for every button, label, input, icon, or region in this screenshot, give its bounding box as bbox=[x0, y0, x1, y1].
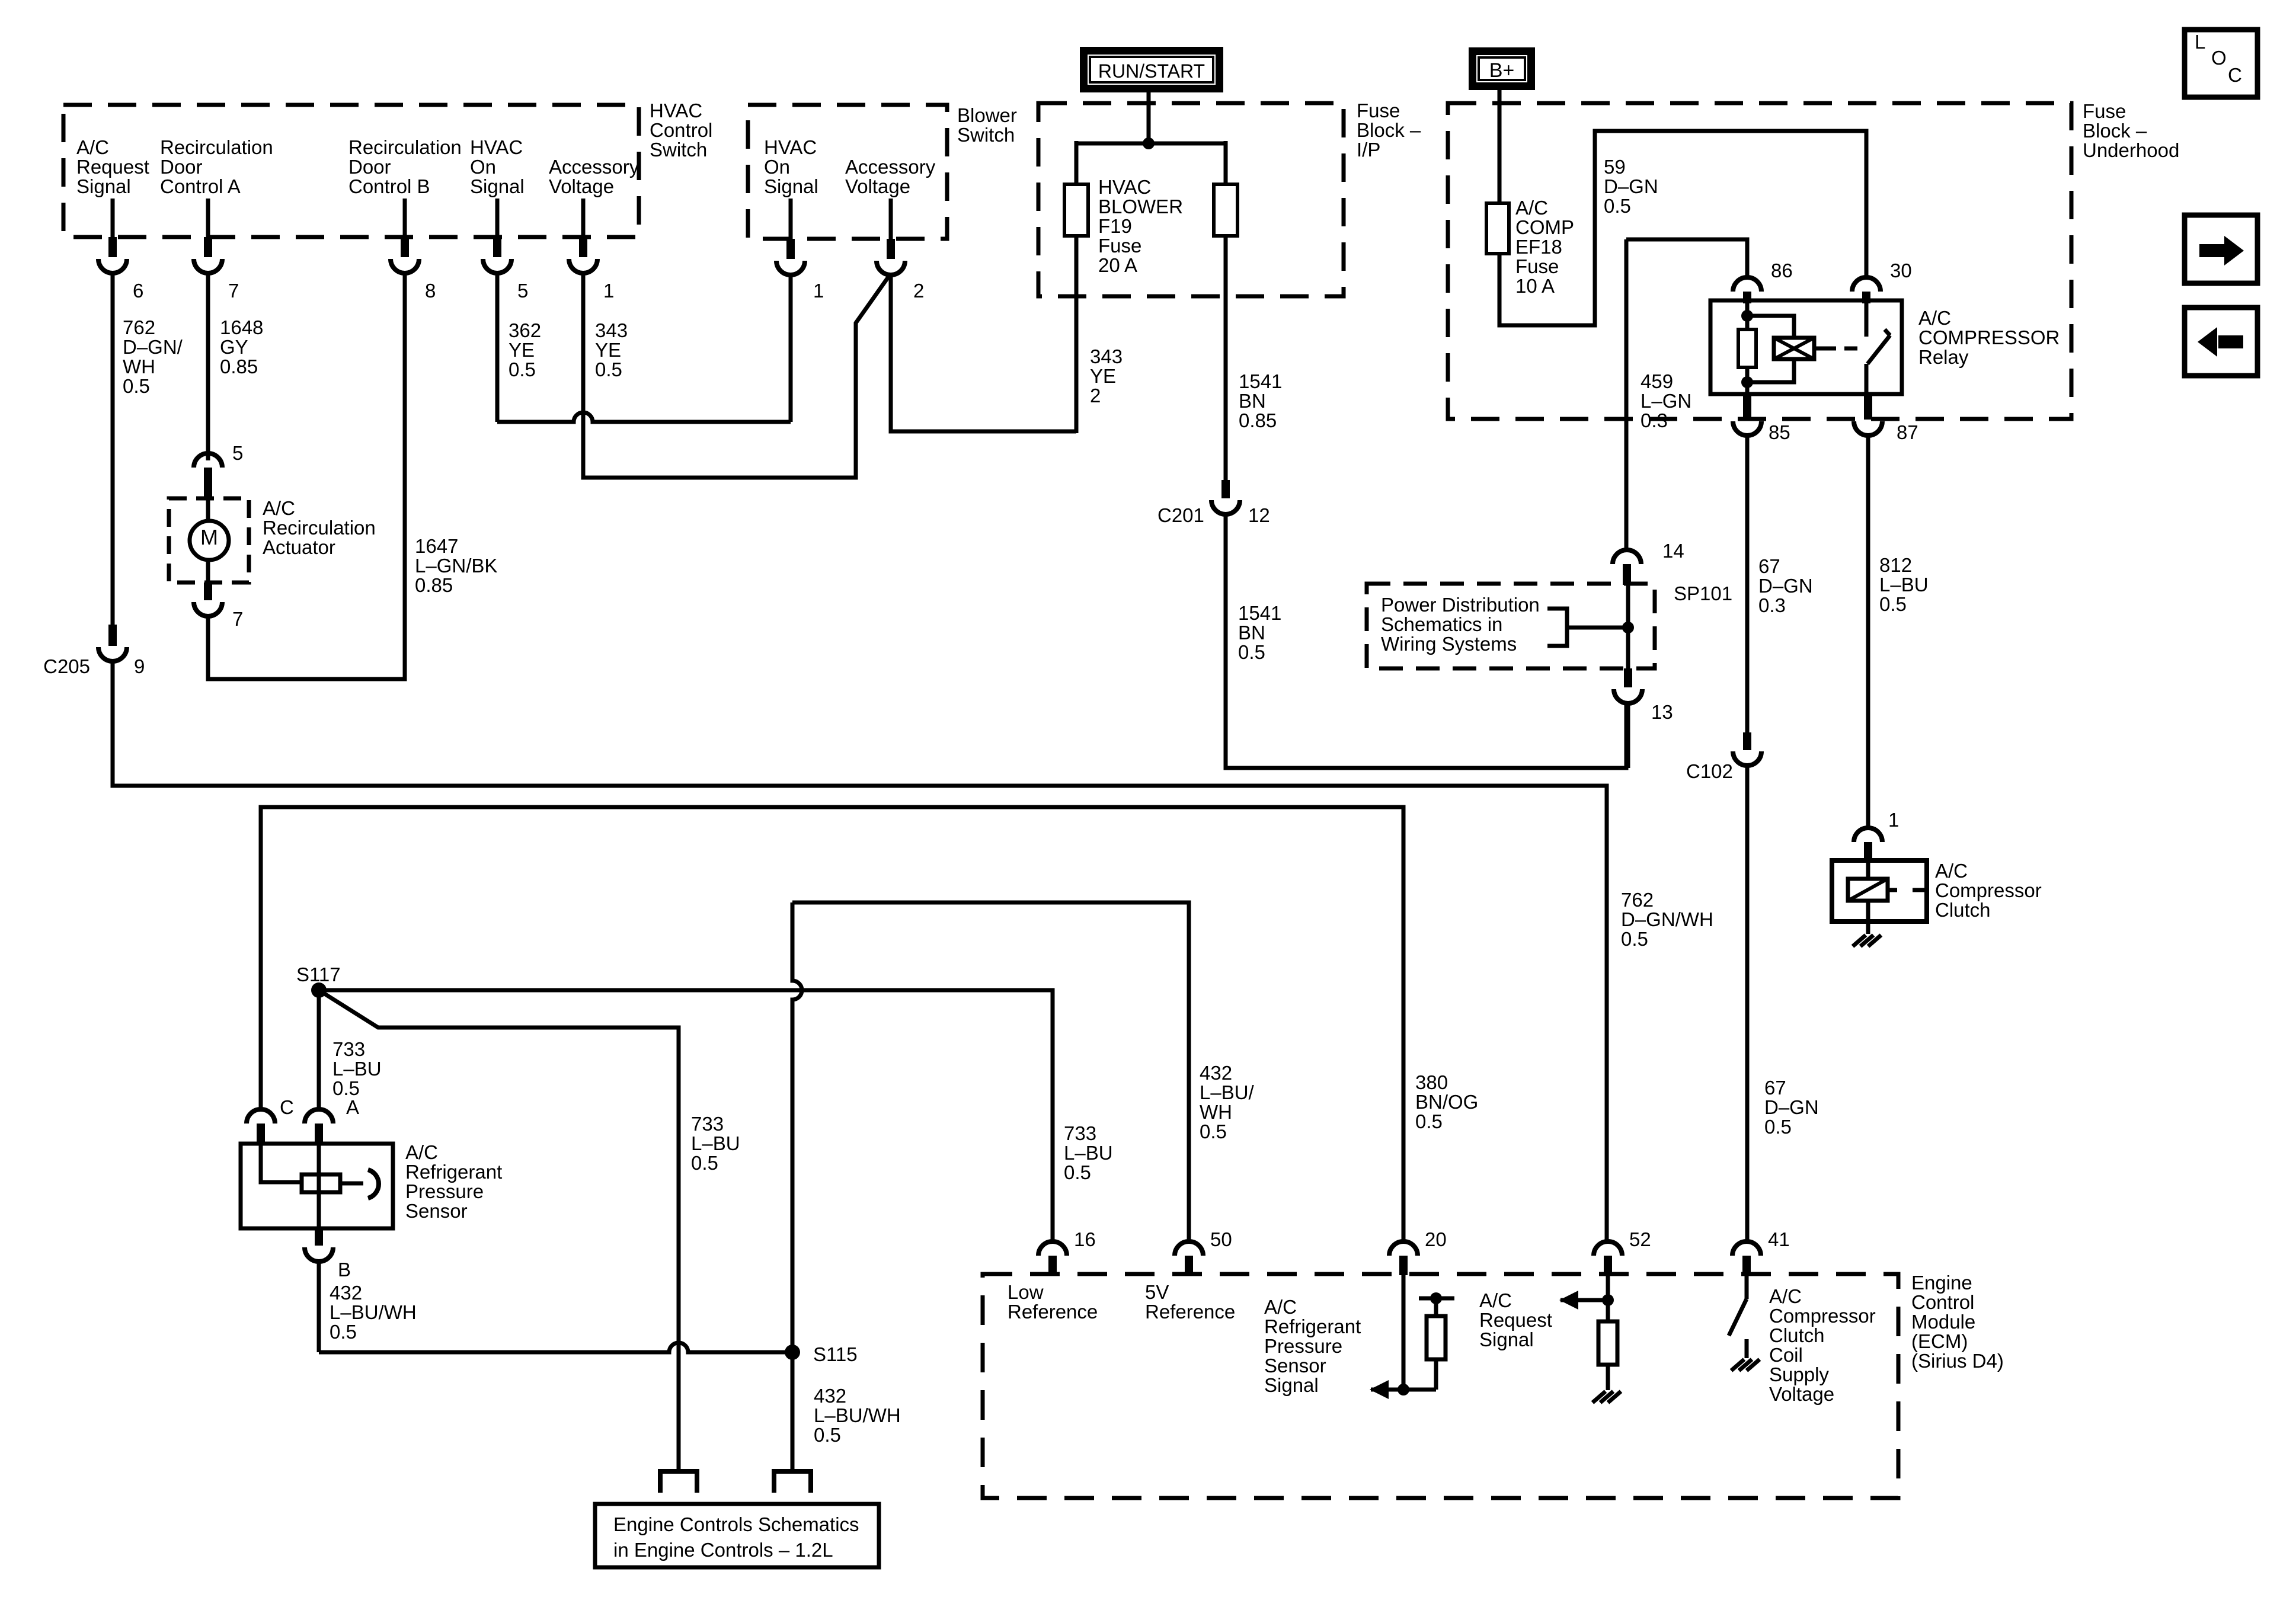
svg-text:Low: Low bbox=[1008, 1281, 1044, 1303]
svg-text:Sensor: Sensor bbox=[1264, 1355, 1326, 1377]
svg-text:Engine Controls Schematics: Engine Controls Schematics bbox=[613, 1513, 859, 1535]
svg-text:WH: WH bbox=[123, 356, 155, 377]
svg-text:L–GN/BK: L–GN/BK bbox=[415, 555, 497, 577]
svg-text:52: 52 bbox=[1629, 1228, 1651, 1250]
svg-text:Schematics in: Schematics in bbox=[1381, 613, 1502, 635]
svg-text:2: 2 bbox=[913, 280, 924, 302]
svg-text:A/C: A/C bbox=[1264, 1296, 1297, 1318]
svg-text:Sensor: Sensor bbox=[405, 1200, 468, 1222]
svg-text:L: L bbox=[2195, 31, 2205, 53]
svg-text:O: O bbox=[2211, 47, 2227, 69]
svg-text:59: 59 bbox=[1604, 156, 1626, 178]
svg-text:762: 762 bbox=[123, 316, 155, 338]
svg-text:Request: Request bbox=[1479, 1309, 1552, 1331]
svg-text:Reference: Reference bbox=[1145, 1301, 1235, 1323]
svg-text:C201: C201 bbox=[1157, 504, 1204, 526]
svg-text:362: 362 bbox=[509, 319, 541, 341]
svg-text:Clutch: Clutch bbox=[1769, 1324, 1825, 1346]
svg-text:Block –: Block – bbox=[2083, 120, 2147, 142]
svg-text:Voltage: Voltage bbox=[549, 175, 614, 197]
svg-text:0.5: 0.5 bbox=[1064, 1161, 1091, 1183]
svg-text:On: On bbox=[470, 156, 496, 178]
svg-text:Power Distribution: Power Distribution bbox=[1381, 594, 1540, 616]
svg-text:1647: 1647 bbox=[415, 535, 458, 557]
svg-text:Fuse: Fuse bbox=[1098, 235, 1141, 257]
svg-text:85: 85 bbox=[1769, 421, 1790, 443]
svg-text:0.3: 0.3 bbox=[1641, 409, 1668, 431]
svg-text:67: 67 bbox=[1758, 555, 1780, 577]
svg-text:6: 6 bbox=[133, 280, 143, 302]
svg-text:12: 12 bbox=[1248, 504, 1270, 526]
svg-text:D–GN/: D–GN/ bbox=[123, 336, 183, 358]
svg-text:A/C: A/C bbox=[263, 497, 295, 519]
svg-text:1648: 1648 bbox=[220, 316, 263, 338]
svg-text:A/C: A/C bbox=[405, 1141, 438, 1163]
svg-text:C: C bbox=[280, 1096, 294, 1118]
svg-text:S115: S115 bbox=[813, 1343, 858, 1365]
svg-text:20 A: 20 A bbox=[1098, 254, 1137, 276]
svg-text:Refrigerant: Refrigerant bbox=[1264, 1315, 1361, 1337]
svg-text:2: 2 bbox=[1090, 385, 1101, 406]
svg-text:Actuator: Actuator bbox=[263, 536, 335, 558]
svg-text:in Engine Controls – 1.2L: in Engine Controls – 1.2L bbox=[613, 1539, 833, 1561]
svg-text:RUN/START: RUN/START bbox=[1098, 60, 1205, 82]
svg-text:B+: B+ bbox=[1489, 59, 1515, 82]
svg-text:YE: YE bbox=[509, 339, 535, 361]
svg-text:A/C: A/C bbox=[1935, 860, 1968, 882]
svg-text:50: 50 bbox=[1210, 1228, 1232, 1250]
svg-text:COMPRESSOR: COMPRESSOR bbox=[1918, 327, 2060, 348]
svg-text:Request: Request bbox=[76, 156, 149, 178]
svg-text:432: 432 bbox=[814, 1385, 846, 1407]
svg-text:A/C: A/C bbox=[1479, 1289, 1512, 1311]
svg-text:459: 459 bbox=[1641, 370, 1673, 392]
svg-text:1: 1 bbox=[813, 280, 824, 302]
svg-text:1: 1 bbox=[1888, 809, 1899, 831]
svg-text:Control A: Control A bbox=[160, 175, 241, 197]
svg-text:5V: 5V bbox=[1145, 1281, 1169, 1303]
svg-text:9: 9 bbox=[134, 655, 145, 677]
svg-text:Clutch: Clutch bbox=[1935, 899, 1991, 921]
svg-text:A: A bbox=[346, 1096, 359, 1118]
svg-text:Door: Door bbox=[348, 156, 391, 178]
svg-text:Module: Module bbox=[1911, 1311, 1975, 1333]
svg-text:Compressor: Compressor bbox=[1769, 1305, 1876, 1327]
svg-text:Control: Control bbox=[1911, 1291, 1974, 1313]
svg-text:A/C: A/C bbox=[1769, 1285, 1802, 1307]
svg-text:0.5: 0.5 bbox=[595, 359, 622, 380]
svg-text:1541: 1541 bbox=[1239, 370, 1282, 392]
svg-text:0.3: 0.3 bbox=[1758, 594, 1786, 616]
svg-text:Compressor: Compressor bbox=[1935, 879, 2042, 901]
svg-text:Recirculation: Recirculation bbox=[348, 136, 462, 158]
svg-text:WH: WH bbox=[1200, 1101, 1232, 1123]
svg-text:86: 86 bbox=[1771, 260, 1793, 281]
svg-text:41: 41 bbox=[1768, 1228, 1790, 1250]
svg-text:343: 343 bbox=[595, 319, 628, 341]
svg-text:14: 14 bbox=[1662, 540, 1684, 562]
svg-text:C102: C102 bbox=[1686, 760, 1733, 782]
svg-text:BN: BN bbox=[1239, 390, 1266, 412]
svg-text:HVAC: HVAC bbox=[764, 136, 817, 158]
svg-text:A/C: A/C bbox=[1515, 197, 1548, 219]
svg-text:A/C: A/C bbox=[1918, 307, 1951, 329]
svg-text:On: On bbox=[764, 156, 790, 178]
svg-text:BLOWER: BLOWER bbox=[1098, 196, 1183, 217]
svg-text:0.5: 0.5 bbox=[123, 375, 150, 397]
svg-text:COMP: COMP bbox=[1515, 216, 1574, 238]
svg-text:C205: C205 bbox=[43, 655, 90, 677]
svg-text:30: 30 bbox=[1890, 260, 1912, 281]
svg-text:7: 7 bbox=[232, 608, 243, 630]
svg-text:M: M bbox=[200, 525, 218, 549]
svg-text:(ECM): (ECM) bbox=[1911, 1330, 1968, 1352]
svg-text:HVAC: HVAC bbox=[1098, 176, 1151, 198]
svg-text:GY: GY bbox=[220, 336, 248, 358]
svg-text:Supply: Supply bbox=[1769, 1363, 1829, 1385]
svg-text:Blower: Blower bbox=[957, 104, 1017, 126]
svg-text:L–BU/WH: L–BU/WH bbox=[814, 1404, 901, 1426]
svg-text:Refrigerant: Refrigerant bbox=[405, 1161, 502, 1183]
svg-text:5: 5 bbox=[232, 442, 243, 464]
svg-text:L–GN: L–GN bbox=[1641, 390, 1691, 412]
svg-text:0.5: 0.5 bbox=[330, 1321, 357, 1343]
svg-text:HVAC: HVAC bbox=[470, 136, 523, 158]
svg-text:0.85: 0.85 bbox=[1239, 409, 1277, 431]
svg-text:812: 812 bbox=[1879, 554, 1912, 576]
svg-text:Switch: Switch bbox=[957, 124, 1015, 146]
svg-text:87: 87 bbox=[1897, 421, 1918, 443]
svg-text:SP101: SP101 bbox=[1674, 582, 1732, 604]
svg-text:Wiring Systems: Wiring Systems bbox=[1381, 633, 1517, 655]
svg-text:380: 380 bbox=[1415, 1071, 1448, 1093]
svg-text:S117: S117 bbox=[296, 964, 341, 985]
svg-text:0.5: 0.5 bbox=[1415, 1110, 1443, 1132]
svg-text:Signal: Signal bbox=[76, 175, 131, 197]
svg-text:0.85: 0.85 bbox=[415, 574, 453, 596]
svg-text:Signal: Signal bbox=[1264, 1374, 1319, 1396]
svg-text:Fuse: Fuse bbox=[1515, 255, 1559, 277]
svg-text:7: 7 bbox=[228, 280, 239, 302]
svg-text:Signal: Signal bbox=[1479, 1329, 1534, 1350]
svg-text:432: 432 bbox=[330, 1282, 362, 1304]
svg-text:Pressure: Pressure bbox=[1264, 1335, 1342, 1357]
svg-text:BN: BN bbox=[1238, 622, 1265, 644]
svg-text:C: C bbox=[2228, 64, 2242, 86]
svg-text:432: 432 bbox=[1200, 1062, 1232, 1084]
svg-text:Door: Door bbox=[160, 156, 203, 178]
svg-text:D–GN: D–GN bbox=[1764, 1096, 1819, 1118]
svg-text:Control: Control bbox=[650, 119, 712, 141]
svg-text:Block –: Block – bbox=[1357, 119, 1421, 141]
svg-text:762: 762 bbox=[1621, 889, 1654, 911]
svg-text:(Sirius D4): (Sirius D4) bbox=[1911, 1350, 2004, 1372]
svg-text:Switch: Switch bbox=[650, 139, 707, 161]
svg-text:L–BU: L–BU bbox=[1879, 574, 1929, 596]
svg-text:B: B bbox=[338, 1259, 351, 1281]
svg-text:0.5: 0.5 bbox=[1764, 1116, 1792, 1138]
svg-text:L–BU: L–BU bbox=[1064, 1142, 1113, 1164]
svg-text:L–BU: L–BU bbox=[332, 1058, 382, 1080]
svg-text:BN/OG: BN/OG bbox=[1415, 1091, 1478, 1113]
svg-text:16: 16 bbox=[1074, 1228, 1096, 1250]
svg-text:Signal: Signal bbox=[764, 175, 818, 197]
svg-text:Control B: Control B bbox=[348, 175, 430, 197]
svg-text:0.85: 0.85 bbox=[220, 356, 258, 377]
svg-text:13: 13 bbox=[1651, 701, 1673, 723]
svg-text:YE: YE bbox=[1090, 365, 1116, 387]
svg-text:733: 733 bbox=[1064, 1122, 1096, 1144]
svg-text:Relay: Relay bbox=[1918, 346, 1969, 368]
svg-text:5: 5 bbox=[517, 280, 528, 302]
svg-text:A/C: A/C bbox=[76, 136, 109, 158]
svg-text:1541: 1541 bbox=[1238, 602, 1281, 624]
svg-text:0.5: 0.5 bbox=[1879, 593, 1907, 615]
svg-text:D–GN: D–GN bbox=[1758, 575, 1813, 597]
svg-text:Fuse: Fuse bbox=[2083, 100, 2126, 122]
svg-text:Recirculation: Recirculation bbox=[263, 517, 376, 539]
svg-text:I/P: I/P bbox=[1357, 139, 1380, 161]
svg-text:D–GN: D–GN bbox=[1604, 175, 1658, 197]
svg-text:Voltage: Voltage bbox=[1769, 1383, 1834, 1405]
svg-text:10 A: 10 A bbox=[1515, 275, 1555, 297]
svg-text:0.5: 0.5 bbox=[691, 1152, 718, 1174]
svg-text:L–BU/WH: L–BU/WH bbox=[330, 1301, 417, 1323]
svg-text:L–BU: L–BU bbox=[691, 1132, 740, 1154]
svg-text:8: 8 bbox=[425, 280, 436, 302]
svg-text:0.5: 0.5 bbox=[509, 359, 536, 380]
svg-text:0.5: 0.5 bbox=[1200, 1121, 1227, 1142]
svg-text:Coil: Coil bbox=[1769, 1344, 1803, 1366]
svg-text:0.5: 0.5 bbox=[814, 1424, 841, 1446]
svg-text:L–BU/: L–BU/ bbox=[1200, 1081, 1255, 1103]
svg-text:Voltage: Voltage bbox=[845, 175, 910, 197]
svg-text:20: 20 bbox=[1425, 1228, 1447, 1250]
svg-text:Underhood: Underhood bbox=[2083, 139, 2179, 161]
svg-text:YE: YE bbox=[595, 339, 621, 361]
svg-text:1: 1 bbox=[603, 280, 614, 302]
svg-text:Engine: Engine bbox=[1911, 1272, 1972, 1294]
svg-text:EF18: EF18 bbox=[1515, 236, 1562, 258]
svg-text:Fuse: Fuse bbox=[1357, 100, 1400, 121]
svg-text:Recirculation: Recirculation bbox=[160, 136, 273, 158]
svg-text:733: 733 bbox=[691, 1113, 724, 1135]
svg-text:0.5: 0.5 bbox=[1621, 928, 1648, 950]
svg-text:HVAC: HVAC bbox=[650, 100, 702, 121]
svg-text:Accessory: Accessory bbox=[845, 156, 936, 178]
svg-text:67: 67 bbox=[1764, 1077, 1786, 1099]
svg-text:0.5: 0.5 bbox=[1604, 195, 1631, 217]
svg-text:0.5: 0.5 bbox=[1238, 641, 1265, 663]
svg-text:D–GN/WH: D–GN/WH bbox=[1621, 908, 1713, 930]
svg-text:733: 733 bbox=[332, 1038, 365, 1060]
svg-text:Reference: Reference bbox=[1008, 1301, 1098, 1323]
svg-text:Signal: Signal bbox=[470, 175, 525, 197]
svg-text:343: 343 bbox=[1090, 345, 1123, 367]
svg-text:Accessory: Accessory bbox=[549, 156, 639, 178]
svg-text:F19: F19 bbox=[1098, 215, 1132, 237]
svg-text:Pressure: Pressure bbox=[405, 1180, 484, 1202]
